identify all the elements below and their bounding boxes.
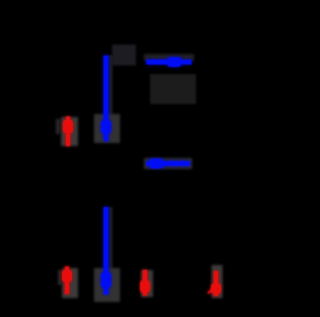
artifact halo behind arrow C [144, 158, 192, 169]
artifact halo behind red arrow E [61, 117, 78, 146]
blue arrow B (horizontal, pointing right) [146, 57, 191, 67]
artifact strip left of red arrow E [56, 119, 60, 134]
artifact strip right of arrow A shaft [109, 55, 113, 117]
artifact halo behind red arrow G [141, 270, 153, 297]
artifact halo behind red arrow H [212, 265, 223, 298]
artifact strip right of arrow D shaft [109, 207, 113, 269]
red arrow H (short, pointing down) [208, 271, 221, 296]
red arrow G (short, pointing down) [140, 270, 150, 296]
artifact halo under arrow B (ghost text) [150, 74, 196, 104]
red arrow F (short, pointing up) [62, 267, 72, 295]
artifact halo behind arrow D head [94, 268, 120, 302]
blue arrow A (long, pointing down) [101, 56, 111, 142]
artifact halo above arrow B shaft [144, 54, 194, 61]
red arrow E (short, pointing up) [63, 117, 73, 147]
artifact halo between arrow A and arrow B [112, 45, 136, 66]
blue arrow C (horizontal, pointing left) [146, 159, 190, 169]
artifact halo behind red arrow F [62, 268, 78, 298]
artifact strip left of red arrow F [58, 270, 62, 285]
blue arrow D (long, pointing down) [101, 207, 111, 295]
artifact halo behind arrow A head [94, 114, 120, 143]
